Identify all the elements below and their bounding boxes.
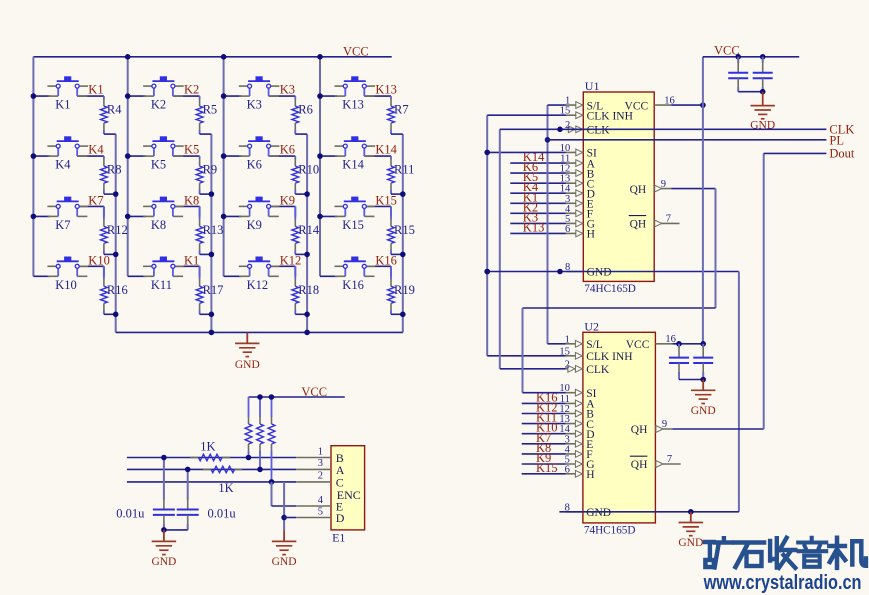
- wire R14 to common line: [295, 253, 307, 255]
- wire K12 pin1 to column bus: [224, 275, 242, 277]
- svg-text:3: 3: [318, 458, 323, 469]
- wire PL net vertical (S/L U1-U2): [547, 105, 549, 344]
- wire VCC rail (right): [703, 56, 799, 58]
- svg-text:K2: K2: [184, 83, 199, 97]
- resistor R15: [388, 206, 415, 254]
- U2 pin 1 (S/L): [565, 334, 603, 351]
- junction bus col1 row3: [31, 214, 37, 220]
- wire column 3 left bus: [223, 57, 225, 276]
- wire R12 to common line: [104, 253, 116, 255]
- ic body U1: [583, 79, 654, 295]
- junction common col3 row4: [304, 312, 310, 318]
- wire R17 to common line: [200, 313, 212, 315]
- svg-text:GND: GND: [272, 556, 297, 568]
- junction RP2/VCC: [257, 394, 263, 400]
- wire K12 output (K12): [269, 266, 296, 276]
- junction bus 2 / VCC rail: [125, 54, 131, 60]
- wire column 2 common output: [210, 134, 212, 332]
- svg-text:K5: K5: [184, 143, 199, 157]
- wire R8 to common line: [104, 193, 116, 195]
- wire K9 output (K9): [269, 206, 296, 216]
- ground (U2 pin8): [678, 512, 703, 549]
- wire K16 pin1 to column bus: [320, 275, 337, 277]
- wire U2 input K8: [522, 453, 566, 455]
- switch K1: [47, 76, 88, 111]
- svg-text:K12: K12: [280, 253, 302, 267]
- net label K2 (U1): [523, 200, 538, 214]
- junction bus col1 row2: [31, 153, 37, 159]
- svg-text:K2: K2: [151, 98, 166, 112]
- U2 pin 15 (CLK INH): [559, 346, 632, 363]
- power VCC (right): [714, 44, 740, 58]
- svg-text:K10: K10: [88, 253, 110, 267]
- svg-text:R8: R8: [107, 163, 122, 177]
- junction RP1/row1: [246, 455, 252, 461]
- wire CLK vertical (U1-U2): [499, 129, 501, 368]
- wire cascade vertical 1: [715, 189, 717, 308]
- wire U1 input K3: [510, 222, 566, 224]
- U2 pin 5 (G): [565, 455, 595, 472]
- junction common col2 row4: [209, 312, 215, 318]
- U1 pin 6 (H): [565, 224, 595, 241]
- svg-text:7: 7: [667, 454, 672, 465]
- svg-text:U1: U1: [585, 79, 600, 93]
- switch K7: [47, 197, 88, 232]
- resistor 1K (row2): [203, 466, 242, 495]
- capacitor C1 (U1 bypass): [728, 57, 748, 92]
- wire U1 input K1: [510, 202, 566, 204]
- svg-text:C: C: [336, 475, 344, 489]
- svg-text:GND: GND: [151, 556, 176, 568]
- wire U2 S/L to vertical: [548, 343, 566, 345]
- svg-text:H: H: [587, 229, 595, 241]
- wire U2 input K16: [522, 402, 566, 404]
- wire K11 output (K1): [173, 266, 200, 276]
- junction common col2 row2: [209, 191, 215, 197]
- junction cap2/row2: [185, 467, 191, 473]
- wire U2 GND row: [559, 511, 739, 513]
- wire R13 to common line: [200, 253, 212, 255]
- svg-text:R7: R7: [394, 103, 409, 117]
- switch K9: [239, 197, 280, 232]
- ground (E1 caps): [151, 530, 176, 568]
- svg-text:R12: R12: [107, 223, 128, 237]
- wire U2 CLKINH to vertical: [487, 355, 565, 357]
- wire U2 input K11: [522, 423, 566, 425]
- svg-text:R9: R9: [203, 163, 218, 177]
- U1 pin 4 (F): [565, 204, 593, 221]
- net label Dout: [829, 146, 855, 160]
- net label K11 (U2): [536, 411, 557, 425]
- svg-text:K4: K4: [88, 143, 104, 157]
- net label K6: [280, 143, 295, 157]
- junction bus col4 row2: [317, 153, 323, 159]
- resistor R11: [388, 156, 415, 194]
- wire bottom GND bus: [116, 331, 403, 333]
- svg-text:K16: K16: [342, 278, 364, 292]
- svg-text:Dout: Dout: [829, 146, 855, 160]
- wire U1 input K2: [510, 212, 566, 214]
- net label K4: [88, 143, 104, 157]
- net label K2: [184, 83, 199, 97]
- junction RP2/row2: [257, 467, 263, 473]
- svg-text:QH: QH: [630, 184, 647, 196]
- junction bus col2 row2: [125, 153, 131, 159]
- ground (keypad bus): [235, 332, 260, 370]
- wire U1 SI from CLKINH vertical: [487, 151, 566, 153]
- U2 pin 3 (E): [565, 434, 594, 451]
- net label K16 (U2): [536, 390, 558, 404]
- net label K14 (U1): [523, 150, 545, 164]
- svg-text:R18: R18: [298, 283, 319, 297]
- wire K1 pin1 to column bus: [33, 95, 50, 97]
- U1 pin 12 (B): [560, 164, 595, 181]
- net label K8 (U2): [536, 441, 551, 455]
- junction GND row left: [484, 269, 490, 275]
- junction bus col3 row1: [221, 93, 227, 99]
- net label K15 (U2): [536, 461, 558, 475]
- switch K5: [143, 136, 184, 171]
- U1 pin 8 (GND): [565, 262, 611, 279]
- junction U2 GND tap: [688, 509, 694, 515]
- wire VCC rail (E1): [249, 396, 345, 398]
- svg-text:5: 5: [318, 506, 323, 517]
- junction pin5 row: [281, 515, 287, 521]
- svg-text:VCC: VCC: [343, 44, 369, 58]
- junction common col1 row3: [113, 252, 119, 258]
- wire K9 pin1 to column bus: [224, 215, 242, 217]
- power VCC (E1): [301, 385, 327, 399]
- wire U1 CLKINH to vertical: [487, 114, 566, 116]
- wire column 2 left bus: [127, 57, 129, 276]
- wire VCC vertical: [702, 57, 704, 344]
- resistor RP3 (pull-up): [268, 397, 275, 482]
- svg-text:GND: GND: [691, 405, 716, 417]
- net label K15: [375, 193, 397, 207]
- U1 pin 13 (C): [560, 174, 595, 191]
- svg-text:R4: R4: [107, 103, 122, 117]
- junction SI/CLKINH vertical: [484, 150, 490, 156]
- svg-text:K13: K13: [523, 220, 545, 234]
- junction common col4 row3: [400, 252, 406, 258]
- wire cascade vertical 2 to U2 SI: [522, 308, 524, 393]
- net label K9 (U2): [536, 451, 551, 465]
- U2 pin 12 (B): [559, 404, 594, 421]
- svg-text:K11: K11: [151, 278, 172, 292]
- wire U1 input K4: [510, 192, 566, 194]
- net label K1: [184, 253, 199, 267]
- wire U2 input K7: [522, 443, 566, 445]
- wire U2 pin16 row: [672, 343, 703, 345]
- wire K14 pin1 to column bus: [320, 155, 337, 157]
- wire column 4 common output: [402, 134, 404, 332]
- resistor R4: [101, 96, 123, 134]
- svg-text:ENC: ENC: [337, 488, 361, 502]
- wire U1 input K13: [510, 232, 566, 234]
- U1 pin 14 (D): [560, 184, 595, 201]
- svg-text:CLK: CLK: [829, 122, 854, 136]
- ground (U1 bypass): [750, 92, 775, 132]
- svg-text:K10: K10: [55, 278, 77, 292]
- svg-text:K1: K1: [184, 253, 199, 267]
- net label CLK: [829, 122, 854, 136]
- net label K5: [184, 143, 199, 157]
- U1 pin 5 (G): [565, 214, 595, 231]
- net label K7 (U2): [536, 431, 551, 445]
- resistor R8: [101, 156, 122, 194]
- wire K13 output (K13): [364, 95, 391, 97]
- ground (E1 pins): [272, 531, 297, 568]
- switch K8: [143, 197, 184, 232]
- junction cap1/row1: [161, 455, 167, 461]
- svg-text:VCC: VCC: [625, 100, 649, 112]
- wire cap bottoms join: [164, 529, 188, 531]
- svg-text:K1: K1: [55, 98, 70, 112]
- resistor R14: [292, 206, 320, 254]
- junction PL vertical: [545, 137, 551, 143]
- net label K1: [88, 83, 103, 97]
- wire R6 to common line: [295, 133, 307, 135]
- svg-text:VCC: VCC: [301, 385, 327, 399]
- svg-text:K6: K6: [247, 158, 262, 172]
- svg-text:9: 9: [661, 179, 666, 190]
- wire column 3 common output: [306, 134, 308, 332]
- net label K4 (U1): [523, 180, 539, 194]
- junction common col1 row4: [113, 312, 119, 318]
- junction C2 bottom: [760, 89, 766, 95]
- wire R15 to common line: [391, 253, 403, 255]
- capacitor C4 (U2 bypass): [693, 344, 713, 380]
- wire U1 S/L to vertical: [548, 104, 566, 106]
- svg-text:K4: K4: [55, 158, 71, 172]
- U1 pin 1 (S/L): [565, 96, 603, 113]
- switch K13: [335, 76, 376, 111]
- svg-text:K13: K13: [375, 83, 397, 97]
- wire U2 SI stub: [523, 392, 566, 394]
- junction common col4 row4: [400, 312, 406, 318]
- net label K13: [375, 83, 397, 97]
- net label K5 (U1): [523, 170, 538, 184]
- junction C4 bottom: [700, 377, 706, 383]
- capacitor C2 (U1 bypass): [753, 57, 773, 92]
- svg-text:K15: K15: [536, 461, 558, 475]
- junction VCC rail c2: [760, 54, 766, 60]
- wire K2 output (K2): [173, 95, 200, 97]
- junction bottom bus col2: [209, 330, 215, 336]
- net label K6 (U1): [523, 160, 538, 174]
- wire Dout vertical: [763, 153, 765, 429]
- resistor R12: [101, 206, 128, 254]
- junction VCC vertical / pin16: [700, 102, 706, 108]
- switch K4: [47, 136, 88, 171]
- junction RP3/VCC: [269, 394, 275, 400]
- resistor RP1 (pull-up): [245, 397, 252, 458]
- svg-text:K12: K12: [247, 278, 269, 292]
- junction common col3 row3: [304, 252, 310, 258]
- svg-text:0.01u: 0.01u: [208, 507, 237, 521]
- wire U1 input K6: [510, 172, 566, 174]
- wire E1 pin5 row: [284, 517, 296, 519]
- svg-text:1K: 1K: [218, 481, 233, 495]
- svg-text:GND: GND: [586, 507, 611, 519]
- wire K8 output (K8): [173, 206, 200, 216]
- junction bus col4 row1: [317, 93, 323, 99]
- U2 pin 9 (QH): [631, 419, 673, 436]
- capacitor 0.01u (right): [177, 469, 237, 530]
- svg-text:K3: K3: [280, 83, 295, 97]
- wire R4 to common line: [104, 133, 116, 135]
- svg-text:7: 7: [666, 214, 671, 225]
- wire U2 CLK to vertical: [500, 368, 566, 370]
- junction GND row mid: [557, 269, 563, 275]
- U1 pin 7 (QH-bar): [629, 214, 680, 231]
- wire K4 pin1 to column bus: [33, 155, 50, 157]
- wire CLKINH vertical (U1-U2): [486, 115, 488, 356]
- svg-text:74HC165D: 74HC165D: [584, 525, 636, 537]
- svg-text:R15: R15: [394, 223, 415, 237]
- switch K14: [335, 136, 376, 171]
- net label K10 (U2): [536, 421, 558, 435]
- svg-text:R14: R14: [298, 223, 320, 237]
- svg-text:R19: R19: [394, 283, 415, 297]
- junction bottom bus col3: [304, 330, 310, 336]
- svg-text:R16: R16: [107, 283, 128, 297]
- svg-text:U2: U2: [584, 319, 599, 333]
- wire E1 pin4 drop: [271, 482, 273, 506]
- junction caps GND: [161, 527, 167, 533]
- junction common col1 row2: [113, 191, 119, 197]
- watermark url: [703, 571, 862, 594]
- U1 pin 9 (QH): [630, 179, 672, 196]
- wire K7 pin1 to column bus: [33, 215, 50, 217]
- resistor R16: [101, 266, 128, 314]
- resistor R10: [292, 156, 319, 194]
- resistor R9: [196, 156, 217, 194]
- resistor R19: [388, 266, 415, 314]
- wire C1 bottom to C2: [738, 91, 763, 93]
- wire K16 output (K16): [364, 266, 391, 276]
- svg-text:K16: K16: [375, 253, 397, 267]
- net label K14: [375, 143, 397, 157]
- wire CLK row to right edge: [500, 128, 827, 130]
- U1 pin 11 (A): [560, 154, 595, 171]
- wire Dout to right edge: [764, 152, 827, 154]
- svg-text:R5: R5: [203, 103, 218, 117]
- wire U1 GND row: [487, 271, 739, 273]
- junction bus col2 row3: [125, 214, 131, 220]
- svg-text:www.crystalradio.cn: www.crystalradio.cn: [703, 571, 862, 594]
- wire K8 pin1 to column bus: [128, 215, 146, 217]
- net label K13 (U1): [523, 220, 545, 234]
- svg-text:74HC165D: 74HC165D: [584, 283, 636, 295]
- U2 pin 6 (H): [565, 464, 595, 481]
- junction common col2 row3: [209, 252, 215, 258]
- junction RP3/row3: [269, 479, 275, 485]
- svg-text:K7: K7: [88, 193, 103, 207]
- wire R19 to common line: [391, 313, 403, 315]
- resistor R6: [292, 96, 313, 134]
- switch K15: [335, 197, 376, 232]
- U1 pin 3 (E): [565, 194, 594, 211]
- wire GND drop right side: [738, 272, 740, 512]
- switch K16: [335, 257, 376, 292]
- svg-text:K15: K15: [375, 193, 397, 207]
- switch K2: [143, 76, 184, 111]
- resistor 1K (row1): [190, 439, 230, 460]
- ic body U2: [583, 319, 656, 536]
- svg-text:K8: K8: [151, 218, 166, 232]
- wire R9 to common line: [200, 193, 212, 195]
- wire U2 input K12: [522, 413, 566, 415]
- wire cascade horizontal: [523, 307, 716, 309]
- svg-text:K13: K13: [342, 98, 364, 112]
- wire column 1 common output: [115, 134, 117, 332]
- svg-text:R13: R13: [203, 223, 224, 237]
- capacitor 0.01u (left): [116, 458, 175, 530]
- svg-text:GND: GND: [235, 359, 260, 371]
- svg-text:K3: K3: [247, 98, 262, 112]
- svg-text:K14: K14: [375, 143, 397, 157]
- net label K8: [184, 193, 199, 207]
- svg-text:K7: K7: [55, 218, 70, 232]
- svg-text:GND: GND: [750, 119, 775, 131]
- svg-text:2: 2: [318, 471, 323, 482]
- svg-text:K9: K9: [280, 193, 295, 207]
- U2 pin 16 (VCC): [626, 334, 676, 351]
- wire R18 to common line: [295, 313, 307, 315]
- svg-text:VCC: VCC: [626, 339, 650, 351]
- wire VCC rail (keypad top): [33, 56, 391, 58]
- wire K3 output (K3): [269, 95, 296, 97]
- junction common col4 row2: [400, 191, 406, 197]
- wire R10 to common line: [295, 193, 307, 195]
- switch K6: [239, 136, 280, 171]
- junction bus col3 row2: [221, 153, 227, 159]
- svg-text:GND: GND: [678, 537, 703, 549]
- svg-text:R10: R10: [298, 163, 319, 177]
- U2 pin 2 (CLK): [565, 359, 610, 376]
- U1 pin 10 (SI): [560, 143, 597, 160]
- junction U2 pin16 c1: [676, 341, 682, 347]
- resistor R18: [292, 266, 319, 314]
- watermark logo (crystalradio): [705, 538, 866, 568]
- switch K11: [143, 257, 184, 292]
- wire K2 pin1 to column bus: [128, 95, 146, 97]
- wire K3 pin1 to column bus: [224, 95, 242, 97]
- junction bus col4 row3: [317, 214, 323, 220]
- junction bus col1 row1: [31, 93, 37, 99]
- junction U2 pin16 c2: [700, 341, 706, 347]
- svg-text:QH: QH: [630, 219, 647, 231]
- svg-text:9: 9: [662, 419, 667, 430]
- junction CLK row: [557, 127, 563, 133]
- wire K5 output (K5): [173, 155, 200, 157]
- resistor R5: [196, 96, 217, 134]
- wire E1 pin4 row: [272, 505, 297, 507]
- wire U1 input K5: [510, 182, 566, 184]
- wire R16 to common line: [104, 313, 116, 315]
- U2 pin 11 (A): [560, 394, 595, 411]
- net label K10: [88, 253, 110, 267]
- net label K3 (U1): [523, 210, 538, 224]
- svg-text:E1: E1: [332, 530, 345, 544]
- U1 pin 16 (VCC): [625, 95, 675, 112]
- net label K9: [280, 193, 295, 207]
- U1 pin 15 (CLK INH): [560, 106, 633, 123]
- switch K12: [239, 257, 280, 292]
- wire U2 input K10: [522, 433, 566, 435]
- wire K7 output (K7): [77, 206, 104, 216]
